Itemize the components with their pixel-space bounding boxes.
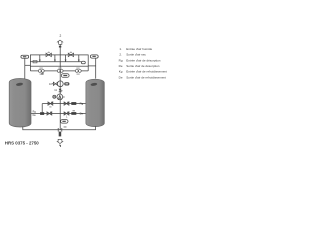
legend [119,47,167,80]
blower: small gauge circle [53,95,56,98]
top manifold box [30,55,88,66]
check valve on center pipe [59,89,62,92]
dark valve body below junction [59,132,62,137]
svg-text:Rg: Rg [119,58,123,62]
wire: exhaust pipe down to manifold [59,44,61,55]
svg-text:Entrée d'air humide: Entrée d'air humide [126,47,152,51]
silencer label stadium top-right [90,55,98,58]
svg-text:Rg: Rg [33,110,37,113]
small valve tick on exhaust pipe [59,46,61,48]
wire: cross stub [52,83,54,85]
wire: drop 1 with down arrow [39,55,41,62]
svg-text:Sortie d'air de désorption: Sortie d'air de désorption [126,64,160,68]
heater (black) lower right [71,112,76,115]
svg-text:11: 11 [54,88,57,92]
svg-text:Entrée d'air de refroidissemen: Entrée d'air de refroidissement [126,70,167,74]
svg-text:Entrée d'air de désorption: Entrée d'air de désorption [126,58,161,62]
svg-text:Sortie d'air sec: Sortie d'air sec [126,53,146,57]
wire: drop 4 with down arrow [78,55,80,62]
svg-text:1: 1 [66,116,68,119]
valve: bowtie upper-right [64,102,69,106]
wire: center pipe through box [59,55,61,71]
wire: box left edge extension to lower pipe [29,66,31,71]
component: flow stadium on center pipe [61,74,69,78]
wire: lower mid line [31,113,86,115]
inlet down-arrow (hollow) [57,139,62,143]
valve: circle in cross [57,81,63,87]
wire: box to right riser branch [88,65,96,67]
wire: box right edge extension to lower pipe [87,66,89,71]
dark stadium label right of cross [64,82,69,85]
svg-text:HRS 0375 - 2750: HRS 0375 - 2750 [5,140,39,145]
wire: left riser [24,58,26,78]
wire: upper mid line [42,103,86,105]
wire: interior header line [33,61,81,63]
blower inlet tick [63,96,65,98]
svg-text:Kg: Kg [119,70,123,74]
wire: drop 2 with down arrow [54,55,56,62]
svg-text:10: 10 [49,82,52,86]
wire: jumper between mid lines [41,104,43,114]
svg-text:Re: Re [119,64,123,68]
valve: double-circle left on outlet pipe [38,68,44,75]
small label above lower heater [73,110,75,111]
valve: bowtie in cross [53,82,57,85]
wire: right riser [95,58,97,79]
valve: double-circle center on outlet pipe [57,68,63,73]
label stadium on interior line right [81,61,85,64]
valve V1 actuated on top line [46,52,51,57]
wire: drop 3 with down arrow [65,55,67,62]
label near bottom junction [64,126,67,127]
valve: bowtie lower-right [64,112,69,116]
svg-text:De: De [33,114,37,117]
valve: double-circle right on outlet pipe [75,68,81,75]
blower: main circle [57,94,63,100]
valve: bowtie lower-left [47,112,52,116]
svg-text:Rg: Rg [80,102,84,106]
heater (black) lower left [40,112,44,115]
right tank T2 [86,79,104,127]
valve V2 actuated on top line [68,52,73,57]
left tank T1 [9,79,31,127]
silencer label stadium top-left [21,55,29,58]
label below left double-circle valve [41,73,43,75]
svg-text:Sortie d'air de refroidissemen: Sortie d'air de refroidissement [126,75,166,79]
valve: bowtie upper-left [48,102,53,108]
svg-text:De: De [119,75,123,79]
wire: left riser branch to box [25,64,31,66]
svg-text:2.: 2. [119,53,122,57]
wire: center column pipe [59,71,61,130]
bottom junction flange ticks [57,128,59,132]
exhaust up-arrow (hollow) [57,40,62,44]
component: flow stadium above bottom line [61,120,68,124]
svg-text:1.: 1. [119,47,122,51]
wire: lower outlet pipe under box [30,70,88,72]
wire: bottom manifold with tank drains [23,126,96,130]
heater (black) upper right [71,102,76,105]
svg-text:De: De [80,112,84,116]
svg-text:2: 2 [60,34,62,38]
component: small rect on interior line left [33,61,37,63]
small tick below arrow [59,145,60,147]
